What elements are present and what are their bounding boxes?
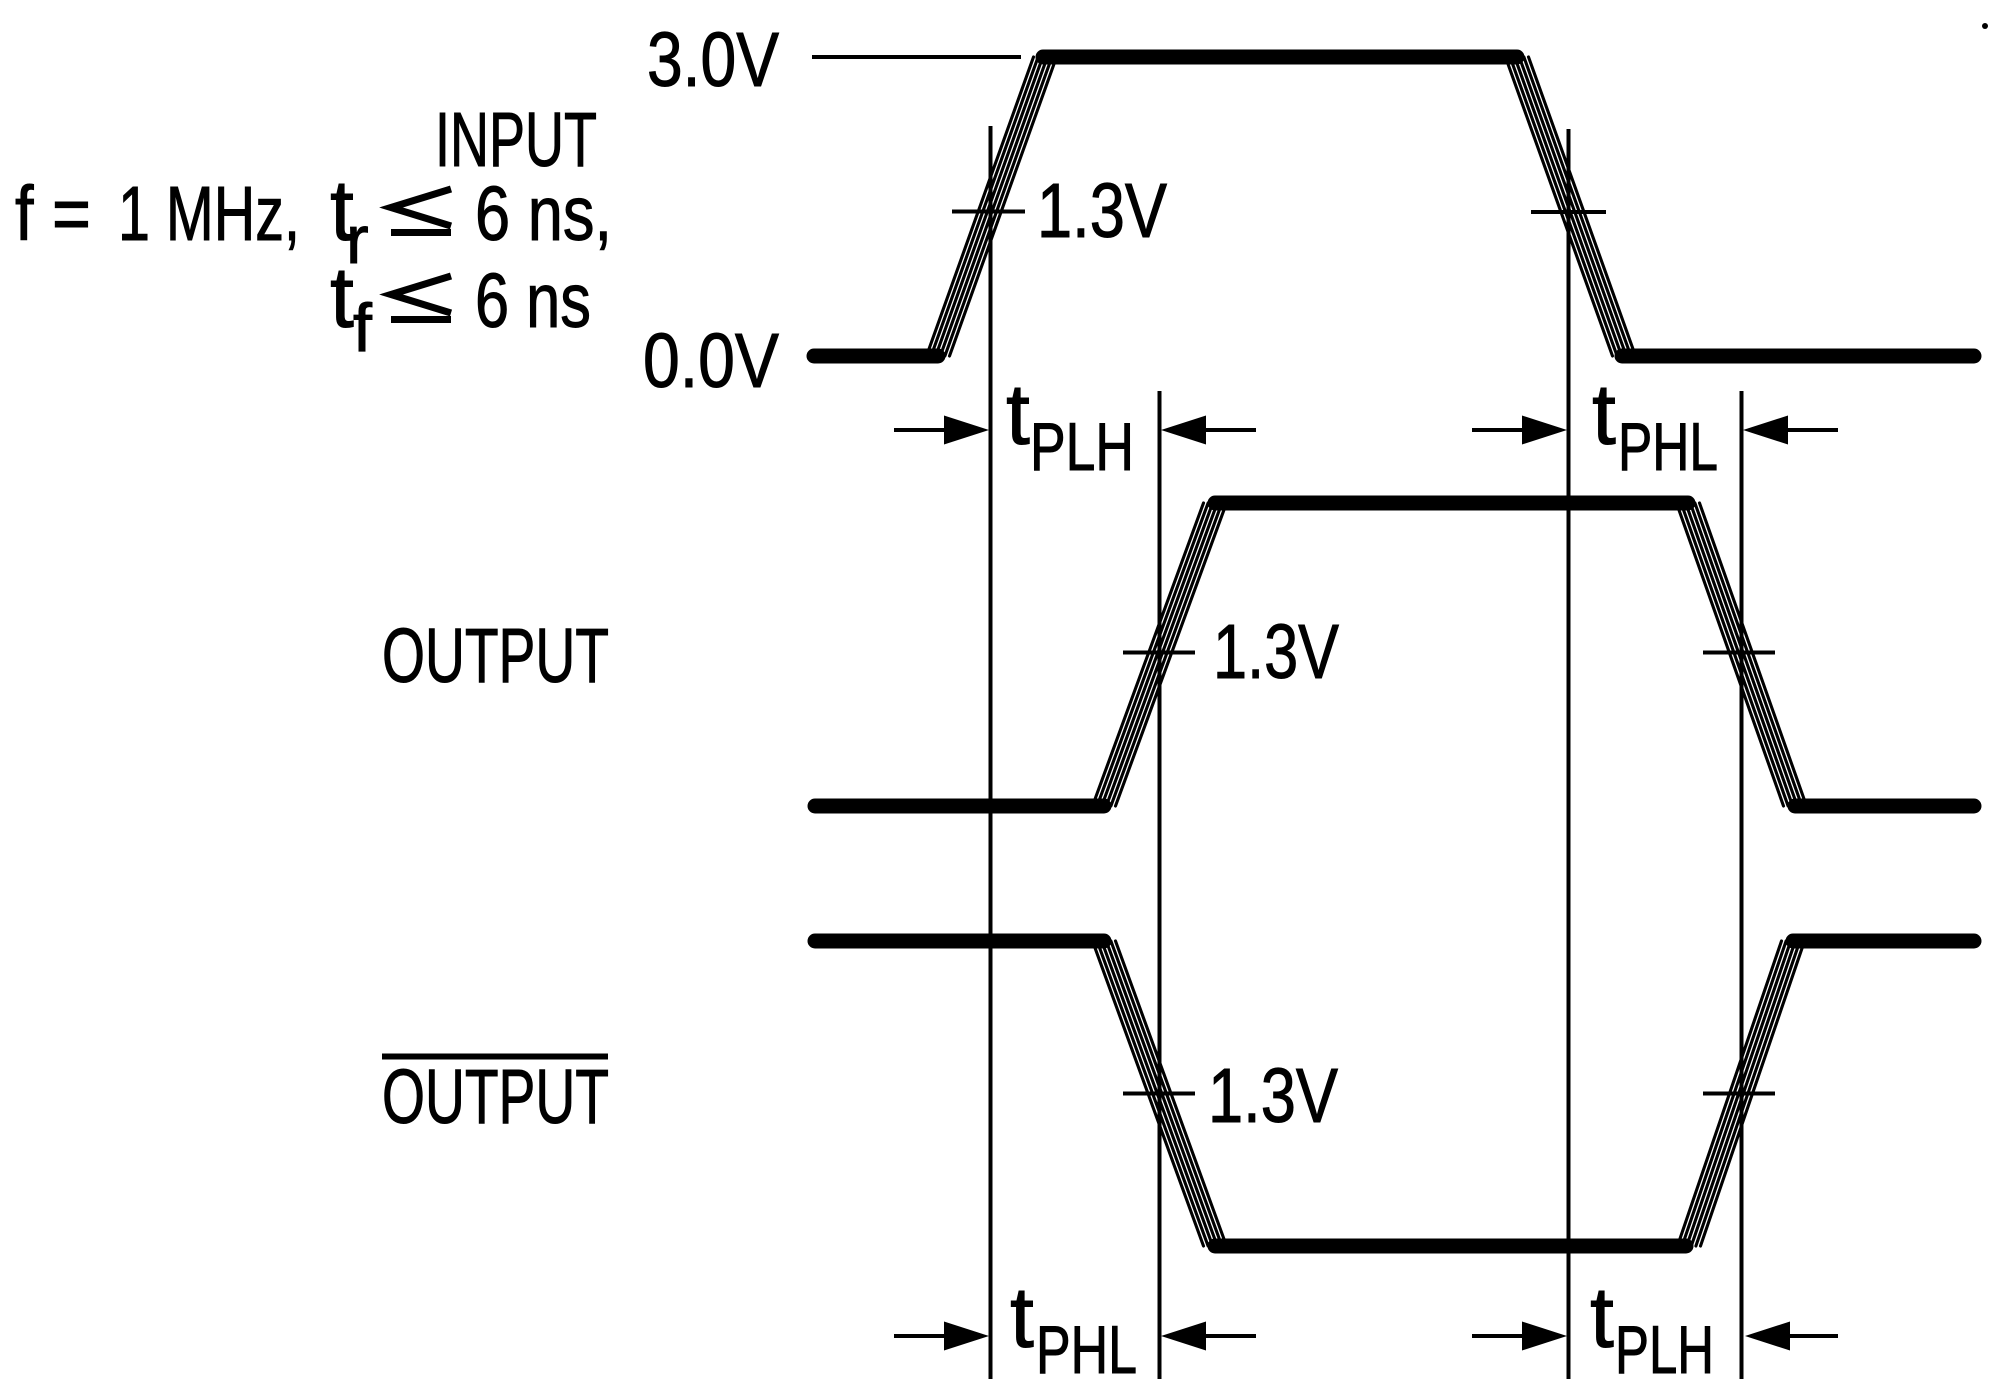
- OUTPUT-bar waveform horizontal segments: [815, 941, 1974, 1246]
- INPUT waveform rising edge (hatched): [927, 57, 1057, 356]
- vertical measurement line D (output falling 1.3V crossing): [1740, 391, 1744, 1379]
- 1.3V tick on inverted output rising edge: [1703, 1092, 1775, 1096]
- arrow into line B (upper, t_PLH right bound): [1204, 428, 1256, 432]
- arrow into line A (lower, t_PHL left bound): [894, 1334, 950, 1338]
- svg-text:6 ns,: 6 ns,: [475, 171, 612, 257]
- vertical measurement line C (input falling 1.3V crossing): [1567, 129, 1571, 1379]
- svg-text:t: t: [1590, 1270, 1614, 1366]
- arrow into line D (lower, t_PLH right bound): [1790, 1334, 1838, 1338]
- svg-text:t: t: [1010, 1270, 1034, 1366]
- 1.3V tick on inverted output falling edge: [1123, 1092, 1195, 1096]
- svg-text:f: f: [353, 290, 372, 366]
- vertical measurement line A (input rising 1.3V crossing): [989, 126, 993, 1379]
- svg-text:1.3V: 1.3V: [1208, 1053, 1339, 1139]
- svg-text:1 MHz,: 1 MHz,: [118, 171, 300, 257]
- OUTPUT-bar waveform falling edge (hatched): [1093, 941, 1227, 1246]
- svg-text:t: t: [1006, 367, 1030, 463]
- svg-text:OUTPUT: OUTPUT: [382, 1054, 609, 1140]
- 1.3V tick on input falling edge: [1531, 210, 1606, 214]
- arrow into line C (upper, t_PHL left bound): [1472, 428, 1528, 432]
- scan artifact dot top right: [1982, 23, 1988, 29]
- svg-text:OUTPUT: OUTPUT: [382, 613, 609, 699]
- svg-text:PHL: PHL: [1036, 1312, 1137, 1384]
- OUTPUT waveform falling edge (hatched): [1677, 503, 1807, 806]
- input conditions line 1: f = 1 MHz, t_r <= 6 ns,: [15, 163, 612, 278]
- svg-text:3.0V: 3.0V: [647, 17, 780, 103]
- svg-text:1.3V: 1.3V: [1037, 168, 1168, 254]
- arrow into line C (lower, t_PLH left bound): [1472, 1334, 1528, 1338]
- 3.0V reference line: [812, 55, 1021, 59]
- svg-text:1.3V: 1.3V: [1213, 609, 1340, 695]
- svg-text:0.0V: 0.0V: [643, 318, 780, 404]
- svg-text:t: t: [1592, 367, 1616, 463]
- arrow into line D (upper, t_PHL right bound): [1786, 428, 1838, 432]
- svg-text:PHL: PHL: [1618, 409, 1718, 485]
- OUTPUT waveform rising edge (hatched): [1093, 503, 1227, 806]
- svg-text:PLH: PLH: [1030, 409, 1134, 485]
- svg-text:f =: f =: [15, 171, 91, 257]
- arrow into line A (upper, t_PLH left bound): [894, 428, 950, 432]
- INPUT waveform falling edge (hatched): [1506, 57, 1636, 356]
- vertical measurement line B (output 1.3V crossing): [1158, 391, 1162, 1379]
- arrow into line B (lower, t_PHL right bound): [1204, 1334, 1256, 1338]
- OUTPUT waveform horizontal segments: [815, 503, 1974, 806]
- svg-text:6 ns: 6 ns: [475, 258, 591, 344]
- 1.3V tick on output rising edge: [1123, 651, 1195, 655]
- INPUT waveform horizontal segments: [814, 57, 1974, 356]
- input conditions line 2: t_f <= 6 ns: [330, 250, 591, 366]
- svg-text:PLH: PLH: [1615, 1312, 1714, 1384]
- svg-text:t: t: [330, 250, 354, 346]
- 1.3V tick on input rising edge: [952, 210, 1025, 214]
- label OUTPUT-bar overline: [382, 1054, 608, 1060]
- OUTPUT-bar waveform rising edge (hatched): [1678, 941, 1805, 1246]
- 1.3V tick on output falling edge: [1703, 651, 1775, 655]
